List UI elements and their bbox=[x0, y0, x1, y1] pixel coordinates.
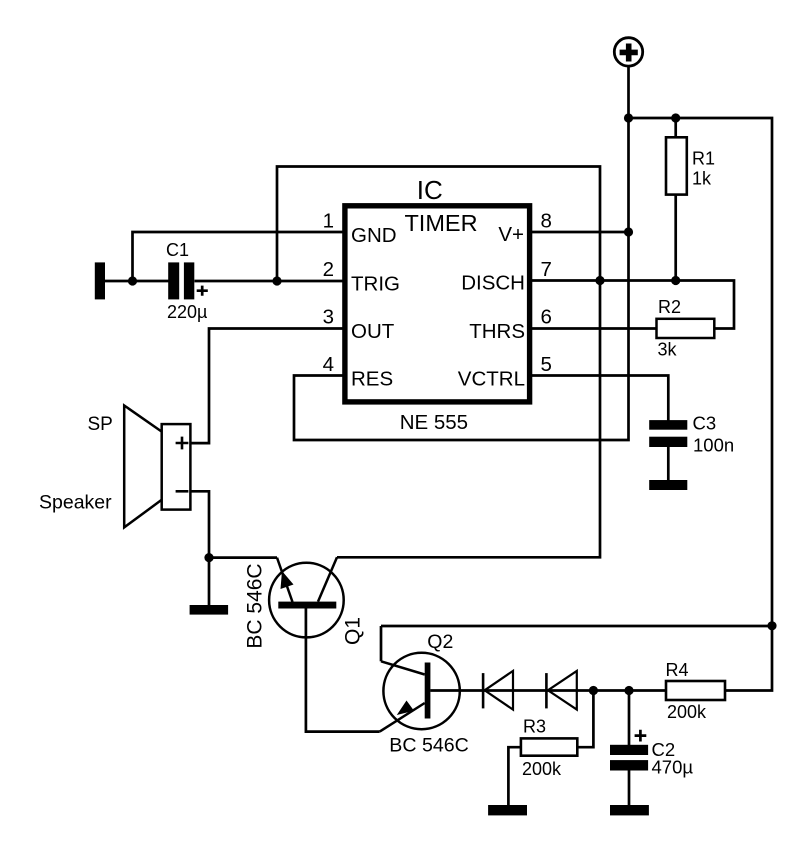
capacitor C2 470u bbox=[610, 730, 693, 778]
svg-text:Speaker: Speaker bbox=[39, 492, 112, 514]
transistor Q2 bbox=[380, 631, 469, 757]
svg-text:BC 546C: BC 546C bbox=[389, 735, 469, 757]
junction dot R3 node bbox=[589, 686, 598, 695]
svg-text:Q1: Q1 bbox=[342, 617, 365, 645]
svg-text:TIMER: TIMER bbox=[404, 210, 477, 236]
svg-text:4: 4 bbox=[323, 353, 334, 376]
diode D1 bbox=[483, 671, 513, 710]
svg-text:Q2: Q2 bbox=[427, 631, 453, 653]
ground below C2 bbox=[610, 805, 649, 815]
resistor R2 bbox=[657, 297, 715, 360]
svg-text:C3: C3 bbox=[693, 413, 717, 434]
junction dot C1 left node bbox=[128, 276, 137, 285]
svg-text:1: 1 bbox=[323, 210, 334, 233]
wire speaker minus down to ground bbox=[190, 491, 209, 605]
wire R3 right lead from diode node bbox=[577, 691, 593, 748]
wire terminal to C1 bbox=[105, 280, 169, 283]
wire Q2 base through diodes to R4 left lead bbox=[430, 689, 666, 692]
svg-text:R2: R2 bbox=[658, 297, 681, 317]
svg-text:DISCH: DISCH bbox=[461, 272, 525, 295]
capacitor C3 bbox=[649, 413, 734, 456]
wire pin 5 VCTRL to C3 bbox=[532, 376, 669, 421]
svg-text:2: 2 bbox=[323, 258, 334, 281]
junction dot Q2 collector on right rail bbox=[767, 621, 776, 630]
wire speaker-ground node to Q1 emitter bbox=[209, 556, 277, 559]
junction dot R1 bottom on DISCH bbox=[671, 276, 680, 285]
wire pin 3 OUT down to speaker plus bbox=[190, 329, 342, 444]
svg-text:6: 6 bbox=[541, 306, 552, 329]
svg-text:THRS: THRS bbox=[469, 320, 525, 343]
svg-text:200k: 200k bbox=[522, 759, 562, 779]
wire pin 8 V+ stub bbox=[532, 231, 629, 234]
ground below R3 bbox=[488, 805, 527, 815]
wire C1 right plate to TRIG pin 2 bbox=[195, 280, 343, 283]
ground below C3 bbox=[649, 480, 687, 490]
wire Q1 base down and right to Q2 emitter bbox=[306, 609, 380, 732]
wire R1 top lead bbox=[674, 118, 677, 138]
wire V+ rail from plus terminal down, across bottom to RES pin 4 bbox=[294, 67, 629, 440]
svg-text:100n: 100n bbox=[693, 435, 734, 456]
wire R3 left lead down to ground bbox=[508, 747, 521, 805]
svg-text:V+: V+ bbox=[498, 223, 524, 246]
svg-text:SP: SP bbox=[88, 414, 113, 435]
resistor R4 bbox=[666, 660, 726, 722]
speaker SP bbox=[39, 406, 190, 528]
svg-text:C1: C1 bbox=[166, 240, 189, 260]
svg-text:200k: 200k bbox=[667, 702, 707, 722]
op-amp/IC U1 NE555 box bbox=[345, 175, 530, 434]
resistor R1 bbox=[666, 137, 715, 194]
resistor R3 bbox=[521, 717, 577, 780]
wire R1 bottom lead to DISCH wire bbox=[674, 195, 677, 281]
svg-text:OUT: OUT bbox=[351, 320, 395, 343]
junction dot DISCH-TRIG link bbox=[595, 276, 604, 285]
wire Q2 collector jog bbox=[380, 626, 383, 661]
junction dot speaker ground node bbox=[204, 553, 213, 562]
svg-text:R3: R3 bbox=[523, 717, 546, 737]
wire pin 6 THRS stub bbox=[532, 327, 658, 330]
svg-text:5: 5 bbox=[541, 353, 552, 376]
svg-text:R1: R1 bbox=[692, 149, 715, 169]
junction dot R1 top bbox=[671, 113, 680, 122]
wire Q2 collector to right rail bbox=[381, 625, 772, 628]
svg-text:R4: R4 bbox=[666, 660, 689, 680]
wire C3 bottom lead to ground bbox=[667, 447, 670, 482]
wire TRIG node up over IC to DISCH line and down to Q1 collector bbox=[277, 167, 600, 558]
diode D2 bbox=[546, 671, 576, 710]
ground below speaker node bbox=[190, 605, 229, 615]
svg-text:220µ: 220µ bbox=[167, 302, 207, 322]
svg-text:BC 546C: BC 546C bbox=[244, 563, 267, 648]
wire C2 top lead from node bbox=[628, 691, 631, 746]
svg-text:7: 7 bbox=[541, 258, 552, 281]
junction dot V+ pin 8 bbox=[624, 227, 633, 236]
junction dot supply top branch bbox=[624, 113, 633, 122]
svg-text:1k: 1k bbox=[692, 169, 712, 189]
wire pin 7 DISCH to R2 right lead bbox=[532, 281, 735, 329]
svg-text:GND: GND bbox=[351, 224, 397, 247]
svg-text:VCTRL: VCTRL bbox=[458, 368, 525, 391]
svg-text:3: 3 bbox=[323, 306, 334, 329]
svg-text:8: 8 bbox=[541, 210, 552, 233]
svg-text:470µ: 470µ bbox=[652, 757, 694, 778]
svg-text:RES: RES bbox=[351, 368, 393, 391]
junction dot TRIG node bbox=[272, 276, 281, 285]
transistor Q1 bbox=[244, 557, 365, 648]
svg-text:3k: 3k bbox=[658, 340, 678, 360]
input terminal bar bbox=[95, 262, 105, 299]
svg-text:IC: IC bbox=[417, 175, 443, 205]
wire pin 1 GND to C1 left node bbox=[133, 232, 343, 281]
wire top supply branch to right rail down to R4 bbox=[629, 118, 773, 691]
junction dot C2 node bbox=[624, 686, 633, 695]
wire C2 bottom lead to ground bbox=[628, 770, 631, 806]
svg-text:TRIG: TRIG bbox=[351, 273, 400, 296]
capacitor C1 220u bbox=[166, 240, 208, 322]
svg-text:NE 555: NE 555 bbox=[400, 411, 468, 434]
power supply plus terminal bbox=[614, 38, 642, 66]
